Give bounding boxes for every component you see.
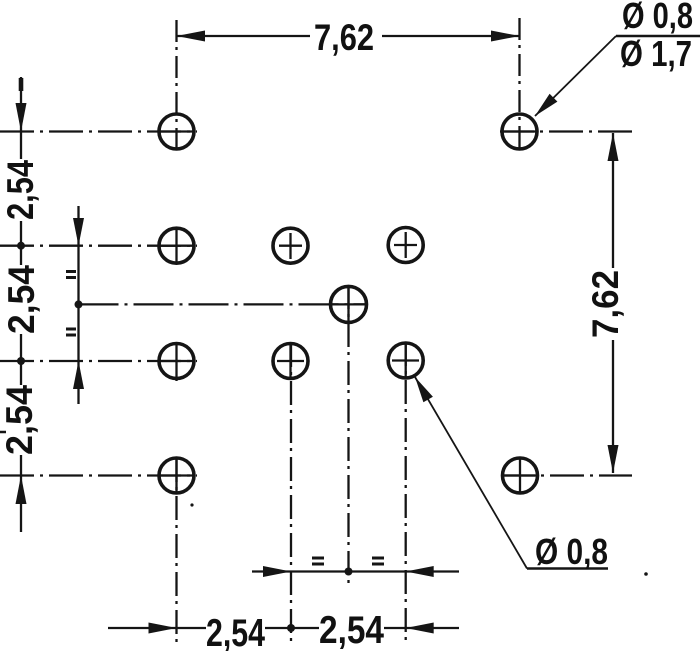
chord through hole B — [502, 130, 537, 132]
hole C vertical arm — [175, 229, 177, 263]
svg-text:2,54: 2,54 — [319, 609, 384, 651]
svg-text:7,62: 7,62 — [585, 270, 626, 338]
left chain line top blob — [19, 78, 24, 91]
centerline bottom-right hole horizontal — [501, 474, 632, 476]
chord through hole J — [159, 474, 194, 476]
hole F center pad — [331, 286, 367, 322]
chord through hole K — [503, 474, 538, 476]
dimension line 7,62 right — [612, 133, 614, 473]
hole H row3 col2 — [273, 344, 308, 379]
inner chain node mid — [75, 300, 83, 308]
hole K vertical arm — [519, 458, 521, 493]
svg-text:7,62: 7,62 — [314, 17, 374, 58]
dim top left arrow — [177, 31, 206, 42]
dimension line 7,62 top — [177, 35, 520, 37]
dim right bottom arrow — [608, 445, 619, 473]
centerline row4 horizontal — [0, 474, 197, 476]
centerline mid-row horizontal — [79, 303, 368, 305]
equality dim node — [345, 568, 353, 576]
left chain bottom arrow — [16, 476, 27, 505]
svg-text:2,54: 2,54 — [1, 265, 42, 334]
svg-text:Ø 0,8: Ø 0,8 — [622, 0, 693, 36]
vertical chord hole F — [347, 287, 349, 321]
equality dimension line bottom — [252, 570, 459, 572]
hole H horizontal arm — [277, 360, 304, 362]
leader bottom arrow — [415, 377, 433, 402]
inner chain bottom arrow — [73, 361, 84, 389]
equality dim right arrow — [406, 566, 434, 577]
hole I row3 col4 — [388, 343, 423, 378]
centerline row2 horizontal — [0, 245, 197, 247]
speck near hole J — [190, 503, 193, 506]
dimension line 2,54 bottom — [108, 627, 459, 629]
extension line below hole I — [405, 342, 407, 640]
inner chain dimension line — [77, 206, 79, 404]
leader top-right diagonal — [535, 36, 616, 116]
chord through hole F — [331, 303, 366, 305]
equality dim left arrow — [263, 566, 291, 577]
equal mark bottom right — [372, 558, 384, 564]
hole G vertical arm — [175, 344, 177, 381]
left chain top arrow — [16, 103, 27, 132]
vertical chord hole H — [289, 344, 291, 378]
chord through hole G — [159, 360, 194, 362]
inner chain top arrow — [73, 218, 84, 246]
svg-text:Ø 0,8: Ø 0,8 — [535, 531, 608, 572]
bottom dim right arrow — [406, 623, 434, 634]
speck right of leader underline — [644, 572, 648, 576]
equal mark lower — [66, 329, 76, 335]
centerline top-right hole horizontal — [500, 130, 633, 132]
svg-text:2,54: 2,54 — [0, 385, 40, 455]
left chain node row2 — [17, 242, 25, 250]
vertical chord hole J — [175, 459, 177, 492]
leader top-right arrow — [535, 94, 557, 116]
chord through hole C — [159, 245, 194, 247]
hole G row3 col1 — [159, 344, 194, 379]
svg-text:Ø 1,7: Ø 1,7 — [620, 33, 692, 74]
vertical chord hole I — [405, 343, 407, 377]
centerline row3 horizontal — [0, 360, 197, 362]
hole A top-left pad — [159, 114, 194, 149]
hole D row2 col2 — [273, 228, 308, 263]
dim right top arrow — [608, 133, 619, 161]
hole E row2 col4 — [388, 228, 423, 263]
extension line above hole A — [175, 20, 177, 153]
hole J bottom-left pad — [159, 458, 194, 493]
hole E cross — [394, 232, 417, 258]
left chain dimension line — [20, 77, 22, 532]
speck left edge — [0, 431, 6, 434]
left chain node row3 — [17, 357, 25, 365]
hole B top-right pad — [502, 114, 537, 149]
leader bottom underline — [527, 567, 608, 569]
hole I horizontal arm — [392, 359, 419, 361]
equal mark upper — [66, 272, 76, 278]
extension line below hole H — [290, 343, 292, 645]
leader top-right underline — [616, 35, 700, 37]
hole D cross — [279, 233, 302, 259]
chord through hole A — [159, 130, 194, 132]
extension line below center hole F — [347, 285, 349, 583]
equal mark bottom left — [312, 558, 324, 564]
hole K bottom-right pad — [503, 458, 538, 493]
bottom dim node — [287, 624, 295, 632]
hole C row2 col1 — [159, 228, 194, 263]
extension line below hole J — [175, 458, 177, 648]
svg-text:2,54: 2,54 — [0, 160, 41, 220]
leader bottom diagonal — [415, 377, 527, 569]
dim top right arrow — [491, 31, 520, 42]
extension line above hole B — [518, 18, 520, 150]
bottom dim left arrow — [149, 623, 177, 634]
centerline row1 horizontal — [0, 130, 197, 132]
svg-text:2,54: 2,54 — [206, 612, 265, 651]
